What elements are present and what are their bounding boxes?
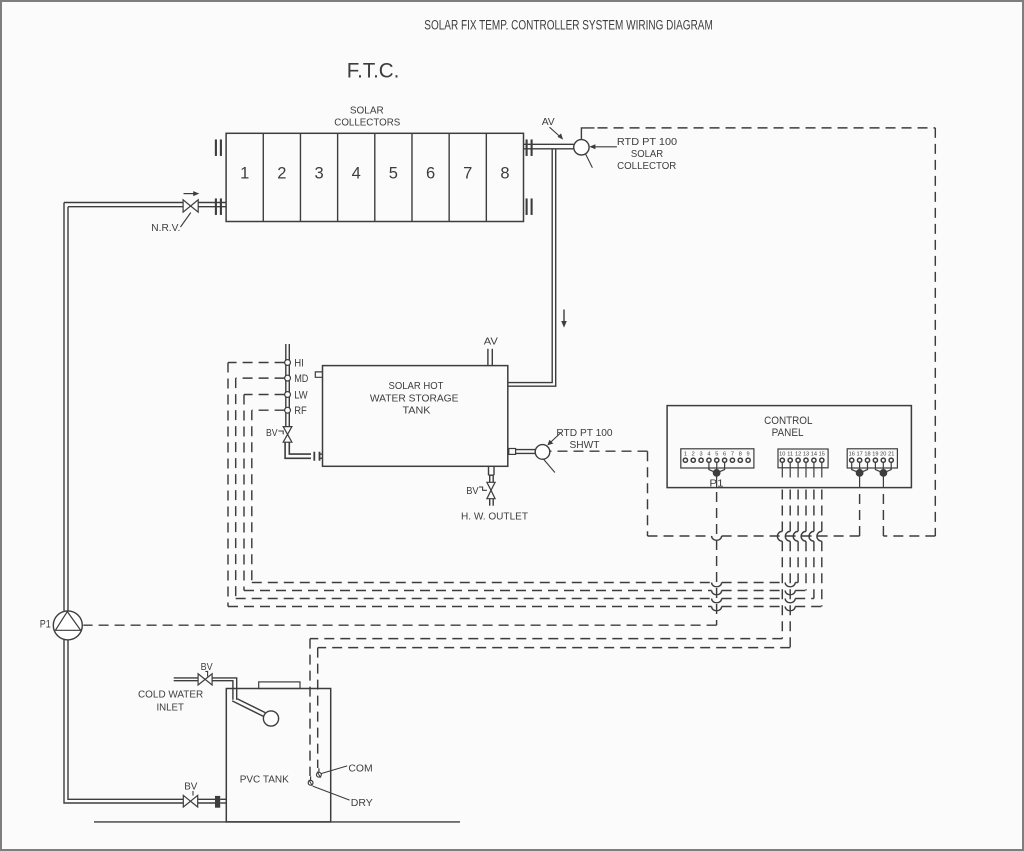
temperature sensor RTD SHWT: [535, 445, 550, 460]
svg-text:3: 3: [314, 165, 323, 183]
label N.R.V.: [151, 213, 191, 235]
svg-text:PVC TANK: PVC TANK: [240, 774, 289, 785]
level sensor MD: [285, 373, 309, 385]
svg-text:2: 2: [277, 165, 286, 183]
svg-text:SOLAR HOT: SOLAR HOT: [389, 380, 445, 392]
label PVC TANK: [240, 774, 289, 785]
svg-text:7: 7: [731, 451, 734, 457]
tank inlet flange: [313, 452, 322, 461]
check valve N.R.V.: [183, 200, 198, 212]
flow arrow: [184, 191, 200, 196]
label DRY: [351, 798, 373, 809]
label BV (inlet): [201, 662, 213, 676]
label BV (outlet): [466, 486, 487, 497]
junction dot 19-21: [880, 470, 886, 476]
svg-text:HI: HI: [294, 357, 304, 369]
svg-text:5: 5: [715, 451, 718, 457]
svg-text:BV: BV: [466, 486, 478, 497]
svg-text:P1: P1: [40, 619, 51, 631]
junction dot 16-18: [856, 470, 862, 476]
svg-text:6: 6: [723, 451, 726, 457]
svg-text:H. W. OUTLET: H. W. OUTLET: [461, 511, 529, 522]
collector flange top-right: [526, 139, 533, 156]
collector flange bottom-left: [215, 198, 222, 215]
title text: [424, 18, 713, 33]
level sensor RF: [285, 405, 307, 417]
terminal block 2 (terminals 10-15): [778, 449, 828, 468]
label P1 (pump): [40, 619, 51, 631]
wire SHWT RTD to terminals 16-18: [550, 451, 859, 540]
svg-text:6: 6: [426, 165, 435, 183]
float ball: [263, 711, 278, 726]
label BV (cold feed): [184, 781, 197, 795]
svg-text:BV: BV: [266, 428, 278, 439]
label RTD PT 100 SOLAR COLLECTOR: [589, 137, 677, 172]
wire electrode COM to terminal 11: [318, 490, 791, 769]
level sensor pipe: [286, 344, 290, 427]
ball valve BV (inlet): [198, 674, 212, 685]
pipe down to storage tank: [508, 149, 556, 386]
svg-text:10: 10: [779, 451, 785, 457]
PVC tank lid: [259, 682, 300, 689]
svg-text:5: 5: [389, 165, 398, 183]
svg-text:1: 1: [684, 451, 687, 457]
svg-text:16: 16: [849, 451, 855, 457]
svg-text:SHWT: SHWT: [570, 440, 601, 451]
svg-text:COLD WATER: COLD WATER: [138, 689, 204, 700]
svg-text:2: 2: [692, 451, 695, 457]
svg-text:4: 4: [707, 451, 710, 457]
svg-text:RTD PT 100: RTD PT 100: [556, 428, 612, 439]
label COLD WATER INLET: [138, 689, 204, 713]
svg-text:AV: AV: [542, 117, 555, 128]
svg-text:P1: P1: [709, 478, 723, 489]
svg-text:N.R.V.: N.R.V.: [151, 223, 180, 234]
ground line: [94, 821, 460, 823]
left riser pipe (lower): [64, 640, 183, 803]
ball valve BV (outlet): [487, 482, 495, 505]
wire solar RTD to terminals 19-21: [598, 128, 936, 536]
svg-text:11: 11: [787, 451, 793, 457]
svg-text:WATER STORAGE: WATER STORAGE: [370, 392, 459, 404]
cold water inlet pipe: [174, 678, 237, 700]
label AV (collector): [542, 117, 563, 140]
svg-text:13: 13: [803, 451, 809, 457]
label SOLAR HOT WATER STORAGE TANK: [370, 380, 459, 417]
air vent stub AV (tank): [488, 349, 492, 366]
svg-text:9: 9: [747, 451, 750, 457]
svg-text:SOLAR: SOLAR: [631, 149, 664, 160]
junction wires terminals 4-6: [709, 462, 725, 487]
svg-text:PANEL: PANEL: [772, 427, 804, 439]
collector flange top-left: [215, 139, 222, 156]
svg-text:TANK: TANK: [403, 405, 431, 417]
label H. W. OUTLET: [461, 511, 529, 522]
svg-text:3: 3: [700, 451, 703, 457]
svg-text:12: 12: [795, 451, 801, 457]
label BV (sensor pipe): [266, 428, 283, 439]
F.T.C. label: [347, 59, 400, 83]
sensor pipe drain elbow: [285, 442, 311, 458]
label RTD PT 100 SHWT: [547, 428, 613, 451]
wire level sensor MD to terminal 14: [236, 378, 814, 603]
junction wires terminals 19-21: [875, 462, 891, 487]
svg-text:19: 19: [872, 451, 878, 457]
hot water outlet stub: [489, 466, 495, 482]
junction dot P1: [713, 470, 719, 476]
svg-text:14: 14: [811, 451, 817, 457]
wire level sensor HI to terminal 15: [228, 363, 822, 611]
svg-text:AV: AV: [484, 337, 498, 348]
svg-text:4: 4: [352, 165, 361, 183]
svg-text:INLET: INLET: [156, 703, 184, 714]
SHWT probe line: [544, 459, 555, 472]
terminal block 3 (terminals 16-21): [847, 449, 897, 468]
svg-text:RTD PT 100: RTD PT 100: [617, 137, 678, 148]
air vent line AV (collector): [581, 128, 594, 140]
svg-text:COLLECTOR: COLLECTOR: [617, 161, 677, 172]
left riser pipe (upper): [64, 203, 68, 611]
PVC tank: [226, 689, 330, 822]
svg-text:20: 20: [880, 451, 886, 457]
ball valve BV (sensor pipe): [283, 427, 292, 443]
collector panel numbers 1-8: [240, 165, 509, 183]
svg-text:BV: BV: [184, 781, 197, 792]
svg-text:LW: LW: [294, 389, 308, 401]
sensor probe line: [586, 154, 593, 167]
svg-text:7: 7: [463, 165, 472, 183]
svg-text:F.T.C.: F.T.C.: [347, 59, 400, 83]
solar collector array box: [226, 133, 523, 221]
svg-text:21: 21: [888, 451, 894, 457]
label SOLAR COLLECTORS: [334, 106, 400, 129]
svg-text:17: 17: [856, 451, 862, 457]
svg-text:COM: COM: [348, 764, 372, 775]
electrode COM: [317, 766, 348, 778]
temperature sensor RTD solar collector: [574, 140, 589, 155]
terminal block 1 (terminals 1-9): [681, 449, 754, 468]
tank left tab: [315, 372, 322, 377]
pipe collector inlet (bottom left): [64, 203, 226, 207]
electrode DRY: [308, 776, 349, 800]
svg-text:SOLAR FIX TEMP. CONTROLLER SY: SOLAR FIX TEMP. CONTROLLER SYSTEM WIRING…: [424, 18, 713, 33]
label COM: [348, 764, 372, 775]
terminal 10-15 lead wires: [782, 462, 822, 477]
svg-text:CONTROL: CONTROL: [764, 415, 812, 427]
label CONTROL PANEL: [764, 415, 812, 439]
svg-text:8: 8: [739, 451, 742, 457]
pipe collector outlet (top right): [524, 144, 574, 149]
wire electrode DRY to terminal 10: [310, 490, 782, 777]
ball valve BV (cold feed): [183, 795, 215, 807]
flow arrow down: [561, 310, 567, 328]
solar hot water storage tank: [323, 366, 508, 467]
label P1 (panel): [709, 478, 723, 489]
svg-text:MD: MD: [294, 373, 308, 385]
svg-text:18: 18: [864, 451, 870, 457]
float arm pipe: [232, 699, 265, 717]
tank sensor stub: [509, 449, 535, 455]
pipe union hatch: [215, 796, 226, 808]
label AV (tank): [484, 337, 498, 348]
svg-text:SOLAR: SOLAR: [350, 106, 384, 117]
collector flange bottom-right: [526, 198, 533, 215]
junction wires terminals 16-18: [852, 462, 868, 487]
level sensor HI: [285, 357, 304, 369]
control panel box: [667, 406, 911, 488]
svg-text:COLLECTORS: COLLECTORS: [334, 117, 400, 128]
svg-text:1: 1: [240, 165, 249, 183]
svg-text:8: 8: [500, 165, 509, 183]
wire P1 pump control: [83, 492, 716, 625]
svg-text:15: 15: [819, 451, 825, 457]
svg-text:DRY: DRY: [351, 798, 373, 809]
level sensor LW: [285, 389, 309, 401]
wire level sensor RF to terminal 12: [252, 410, 798, 587]
pump P1: [53, 611, 82, 640]
wire level sensor LW to terminal 13: [244, 395, 806, 595]
svg-text:RF: RF: [294, 405, 307, 417]
